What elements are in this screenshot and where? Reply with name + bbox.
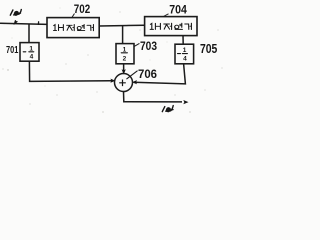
wire: 705 down and left to summer xyxy=(134,64,186,84)
svg-text:4: 4 xyxy=(183,55,187,62)
arrowhead into summer top xyxy=(122,69,126,74)
arrowhead into summer right xyxy=(132,80,137,84)
wire: 702 to 704 xyxy=(99,24,144,27)
svg-text:4: 4 xyxy=(30,54,34,61)
summer 706 xyxy=(115,74,133,92)
svg-text:705: 705 xyxy=(200,42,218,56)
leader 704 xyxy=(164,14,169,17)
box 704: 1H delay xyxy=(145,17,197,36)
output scribble label xyxy=(162,106,173,112)
svg-text:704: 704 xyxy=(169,4,187,17)
svg-text:703: 703 xyxy=(140,41,157,54)
input scribble label xyxy=(10,10,21,24)
box 703: coefficient 1/2 xyxy=(116,44,134,64)
arrowhead into summer left xyxy=(110,79,115,83)
svg-text:701: 701 xyxy=(6,44,18,55)
leader 706 xyxy=(127,71,137,79)
wire: 704 down to 705 xyxy=(182,35,184,44)
svg-text:1: 1 xyxy=(123,47,127,54)
arrowhead output xyxy=(183,100,188,104)
svg-text:706: 706 xyxy=(138,68,157,81)
box 701: coefficient -1/4 xyxy=(20,43,39,62)
wire: summer output down then right xyxy=(124,92,183,102)
svg-text:702: 702 xyxy=(74,3,90,16)
scan speckles xyxy=(3,8,223,113)
wire: 701 down and right to summer xyxy=(29,61,111,81)
leader 703 xyxy=(134,43,139,46)
svg-text:1: 1 xyxy=(183,47,187,54)
leader 702 xyxy=(72,14,75,18)
svg-text:1: 1 xyxy=(29,45,33,52)
box 705: coefficient -1/4 xyxy=(175,44,194,64)
svg-text:2: 2 xyxy=(123,55,127,62)
node nub on input line xyxy=(37,22,39,25)
wire: input line from left edge to box 702 xyxy=(0,23,47,24)
box 702: 1H delay xyxy=(47,18,99,38)
node: input branch junction xyxy=(28,24,30,42)
wire: 703 down to summer xyxy=(123,64,125,73)
node: branch junction to 703 xyxy=(122,26,124,44)
